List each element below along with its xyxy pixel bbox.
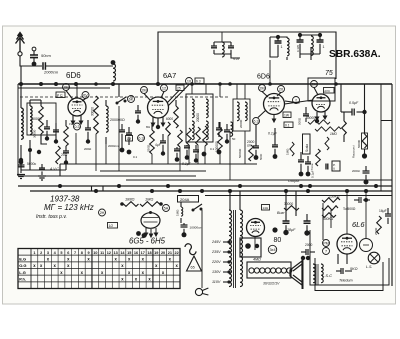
capacitor C25 8uF right [352,166,370,185]
svg-text:6000: 6000 [166,117,173,121]
wires output stage [310,191,389,291]
capacitor C13 [126,127,132,154]
label 1M vertical [176,209,180,216]
coil L1 antenna coil [21,66,23,170]
svg-text:1MΩ: 1MΩ [176,209,180,216]
wires V3 pins [258,92,281,123]
svg-text:20: 20 [279,87,283,91]
capacitor C14 4uF [155,134,166,156]
svg-text:20: 20 [161,251,165,255]
label 50000 right vertical [357,140,361,148]
capacitor C17 T1 bottom [193,145,199,163]
svg-text:15: 15 [127,251,131,255]
svg-text:50: 50 [232,137,236,141]
svg-text:100000: 100000 [215,141,219,152]
capacitor C18b IF middle [216,122,222,137]
pin circle 5Y4 [268,245,276,253]
svg-text:2000cm: 2000cm [108,144,119,148]
wire to plug [201,210,203,288]
pin circle V3 c [253,118,260,125]
svg-text:12: 12 [107,251,111,255]
box left shield [27,103,56,135]
label tube V2 6A7 [163,71,176,80]
pin box V2 d [176,85,184,91]
antenna [16,33,25,56]
wire antenna down [20,56,42,66]
coil L5 top right 3 [311,36,313,56]
speaker cone [290,257,303,289]
svg-text:3: 3 [47,251,49,255]
box label 1/2 [108,223,118,229]
resistor R23 206ohm [181,207,183,216]
svg-text:14Ω: 14Ω [263,206,269,210]
capacitor C22 tone b [305,156,311,176]
tube V5 6L6 [337,234,357,254]
magic eye pins [136,228,158,238]
wire x119 vertical [118,84,120,171]
pin box V1 [56,92,65,98]
wire bus y171 [100,170,206,172]
svg-text:20000: 20000 [196,113,200,122]
svg-text:16μF: 16μF [379,209,387,213]
svg-text:204A: 204A [180,197,190,202]
capacitor C15 cluster [174,147,180,162]
squiggle symbol [185,244,196,255]
wire verticals bottom mid [230,191,296,250]
label 2000cm [43,70,59,75]
voltage tap 245V [211,240,231,244]
svg-text:2M: 2M [63,85,68,89]
label 6L6 [352,220,365,229]
svg-text:Teledum: Teledum [339,279,353,283]
capacitor C24 0.1uF right [341,84,367,116]
svg-text:1MΩ: 1MΩ [286,148,290,155]
ground G2 [38,164,46,180]
capacitor C3 top middle [211,42,217,54]
pin circle 6L6 a [323,240,330,247]
svg-text:25: 25 [177,87,181,91]
svg-text:30000: 30000 [33,129,37,138]
capacitor C28 8uF b [272,214,310,236]
pin circle V2 b [161,85,168,92]
svg-text:75: 75 [325,70,333,77]
svg-text:30000: 30000 [284,202,293,206]
resistor R11 cluster c [196,127,201,145]
svg-text:E.G: E.G [19,257,26,262]
pin circle 6L6 b [323,248,330,255]
wire top verticals from bus [192,84,245,99]
svg-text:20000: 20000 [239,119,243,128]
svg-text:5000c: 5000c [27,162,37,166]
svg-text:8: 8 [81,251,83,255]
svg-text:To 500Ω: To 500Ω [343,207,356,211]
label 188ohm [125,197,134,202]
svg-text:6V: 6V [83,93,88,97]
wire bus y88 left [18,87,110,89]
capacitor C10 [63,146,69,165]
label MF 123 kHz [44,203,94,212]
svg-text:1MΩ: 1MΩ [145,197,153,202]
svg-text:22: 22 [174,251,178,255]
junction dots on bus [111,82,338,86]
wire bus y180 [126,179,392,181]
svg-text:10000cm: 10000cm [190,226,203,230]
resistor R6 250ohm [150,124,155,154]
pin circle V2 c [128,96,135,103]
svg-text:Tone: Tone [310,163,314,170]
svg-text:U: U [333,167,335,171]
svg-text:21: 21 [168,251,172,255]
svg-text:188Ω: 188Ω [125,197,134,202]
svg-text:6L6: 6L6 [352,220,365,229]
capacitor C5 top right 1 [275,35,283,54]
resistor R5 30000 vertical [94,96,99,134]
resistor R12 cluster d [203,126,208,146]
svg-text:250Ω: 250Ω [147,144,151,152]
label V.A [233,57,239,61]
pin circle V1 right [82,92,89,99]
svg-text:1M: 1M [127,137,132,141]
table X marks [33,257,178,282]
coil L7 scala [303,134,311,154]
capacitor C8 [44,120,50,141]
field coil box [247,262,291,278]
svg-text:Instr. tous p.v.: Instr. tous p.v. [36,214,67,220]
rectifier tube 80 [247,219,265,237]
voltage tap 110V [212,280,231,284]
pin circle V2 a [141,87,148,94]
wires V4 pins [314,88,327,124]
resistor R15 1M diag [290,142,294,156]
svg-text:500Ω: 500Ω [298,117,302,125]
resistor R9 cluster a [178,130,183,147]
box PU [332,161,340,171]
resistor R26 250K [322,195,340,203]
label 0.1uF vertical right [311,170,315,178]
svg-text:1/2: 1/2 [109,224,114,228]
pin box V3 e [284,122,293,128]
svg-text:L.G: L.G [19,270,26,275]
svg-text:6.3: 6.3 [253,119,258,123]
svg-text:Raccourci: Raccourci [352,145,356,158]
table row labels [19,257,26,282]
transformer T4 primary coil [229,210,232,287]
label 50000 [32,117,42,121]
label tube V3 6D6 [257,74,270,81]
svg-text:1: 1 [323,45,325,49]
svg-text:18: 18 [147,251,151,255]
capacitor C7 top right 3 [317,33,325,54]
pin circle 2H [99,209,106,216]
svg-text:0.5μF: 0.5μF [349,101,359,105]
label Teledum [339,279,353,283]
label 206ohm [178,196,199,203]
svg-text:2M: 2M [259,86,264,90]
wire bus y186 [18,185,392,187]
svg-text:1: 1 [281,45,283,49]
svg-text:9: 9 [88,251,90,255]
svg-text:12: 12 [162,86,166,90]
resistor R27 to500 [322,206,356,211]
label 80 [274,237,282,244]
label 6G5-6H5 [129,237,166,246]
capacitor C21 tone a [298,152,304,176]
dots bottom right lines [228,184,378,193]
svg-text:0.1μF: 0.1μF [268,132,278,136]
transformer T4 core [234,210,236,288]
resistor box right of V4 [324,88,335,94]
capacitor C12 [119,124,125,152]
ground G1 cap 5000c [17,160,25,179]
capacitor C23 PU [326,164,328,170]
svg-text:5: 5 [60,251,62,255]
label LSC [322,273,332,278]
svg-text:2000c: 2000c [352,169,361,173]
band switch table grid [18,249,180,289]
coil IF extra column [231,122,233,136]
extra dots left column [19,148,41,162]
svg-text:2000cm: 2000cm [43,70,59,75]
capacitor C20 0.1uF under V3 [268,128,278,159]
svg-text:2: 2 [40,251,42,255]
svg-text:7: 7 [74,251,76,255]
resistor R14 500K vertical [249,145,254,161]
label 500ohm vertical under f [298,117,302,125]
svg-text:30000: 30000 [91,107,95,116]
wire top bus horizontal [158,32,336,84]
switch S2 [192,204,203,212]
resistor R16 50000 horizontal [306,116,330,124]
svg-text:16: 16 [134,251,138,255]
svg-text:500KΩ: 500KΩ [238,148,242,158]
svg-text:11: 11 [100,251,104,255]
capacitor C30 5K coupling [336,268,352,274]
label 4Mohm [253,258,261,262]
IF transformer T1 box [186,94,213,142]
label 30000 vertical left [33,129,37,138]
tube V2 6A7 [148,97,169,118]
svg-text:L.S.: L.S. [366,265,372,269]
svg-text:4MΩ: 4MΩ [253,258,261,262]
anode circle 6L6 [360,239,373,252]
resistor R10 cluster b [187,128,192,145]
svg-text:5KΩ: 5KΩ [350,267,358,271]
dots right column [362,149,367,159]
svg-text:2M: 2M [141,88,146,92]
IF transformer T3 box [233,99,250,131]
label 500KOhm vertical [238,148,242,158]
label Raccourci vertical [352,145,356,158]
svg-text:65: 65 [191,266,195,270]
svg-text:L.S.C: L.S.C [322,273,332,278]
resistor R3 20ohm [56,146,68,164]
label 1937-38 [50,195,80,204]
wires top right group1 [270,37,287,84]
triangle symbol [187,256,202,271]
svg-text:PM: PM [323,241,329,245]
capacitor C18 [224,124,230,144]
label 5000c [27,162,37,166]
resistor R7 6000 [166,117,174,136]
pin circle 5A [163,205,170,212]
svg-text:2M: 2M [311,82,316,86]
svg-text:2000: 2000 [305,243,313,247]
output transformer T5 [313,264,323,285]
svg-text:6A7: 6A7 [163,71,176,80]
svg-text:245V: 245V [211,240,221,244]
svg-text:0.1: 0.1 [285,124,290,128]
wire top bus drop x336 [335,60,337,79]
resistor R29 250ohm right [377,216,382,234]
capacitor C27 8uF a [283,214,290,235]
svg-text:0.1μF: 0.1μF [311,170,315,178]
pin circle V1 low [74,123,81,130]
wire left edge vertical x18 [17,84,19,176]
label A.V.C [49,167,59,171]
pin circle V4 [311,81,318,88]
coil L3 top middle [222,42,224,57]
label Tone vertical [310,163,314,170]
svg-text:200Ω: 200Ω [84,147,92,151]
label 18uF [287,228,296,232]
label Instr tous pv [36,214,67,220]
wires V1 pins [66,85,86,124]
label LS right speaker [366,265,372,269]
coil L6 tall [106,100,108,144]
svg-text:6D6: 6D6 [257,74,270,81]
pin circle V2 e [186,78,193,85]
capacitor C11 [85,120,91,144]
svg-text:110V: 110V [212,280,221,284]
svg-text:5000: 5000 [259,153,263,160]
label 100000 vertical [215,141,219,152]
resistor R21 188ohm [120,202,138,207]
svg-text:1MΩ: 1MΩ [330,132,337,136]
svg-text:V.A: V.A [233,57,239,61]
pin circle V1 top [63,84,70,91]
wire bus y164 [60,163,257,165]
voltage tap 220V [211,260,231,264]
wire loop connectors x91 x103 [92,186,104,191]
wires top middle cluster [214,32,240,58]
pin circle 6.3 [138,135,145,142]
voltage tap 235V [211,250,231,254]
svg-text:200000Ω: 200000Ω [110,118,125,122]
dots IF bottoms [202,150,222,157]
svg-text:18μF: 18μF [287,228,296,232]
resistor R22 1Mohm [140,202,163,207]
svg-text:5A: 5A [164,206,169,210]
capacitor C9 [53,123,59,144]
svg-text:6G5 - 6H5: 6G5 - 6H5 [129,237,166,246]
label tube V4 75 [325,70,333,77]
svg-text:6K: 6K [129,97,134,101]
capacitor C13b V2 left [135,105,141,124]
box below rectifier [240,238,261,257]
svg-text:10: 10 [93,251,97,255]
capacitor C26 2000cm [181,223,203,237]
svg-text:13: 13 [114,251,118,255]
svg-text:SBR.638A.: SBR.638A. [329,49,381,60]
label Output [288,179,300,183]
resistor R24 1M vertical [180,202,182,223]
field coil bumps [249,268,292,273]
wires top right group2 [300,35,320,60]
svg-text:0.1: 0.1 [133,155,138,159]
label 1Mohm pot [145,197,153,202]
svg-text:MΓ = 123 kHz: MΓ = 123 kHz [44,203,94,212]
svg-text:4μF: 4μF [155,143,161,147]
resistor R13 100000 [218,122,223,152]
wire right verticals [381,84,392,286]
T3 coils [237,102,247,121]
wire bus y176 [18,175,196,177]
svg-text:220V: 220V [211,260,221,264]
svg-text:50000: 50000 [357,140,361,148]
svg-text:1W: 1W [69,122,74,126]
svg-text:K.C: K.C [57,94,63,98]
svg-text:0.3: 0.3 [74,125,79,129]
svg-text:AVC: AVC [324,89,330,93]
wire AVC dashed y96 [20,96,230,98]
svg-text:6D6: 6D6 [66,71,81,80]
svg-text:Scala: Scala [305,144,309,152]
capacitor C19 2000cm under V3 [247,125,259,160]
svg-text:Buzr: Buzr [277,211,285,215]
capacitor C16 cluster [184,145,190,160]
wires V2 pins [144,85,189,130]
svg-text:6: 6 [67,251,69,255]
pin circle V3 f [293,97,300,104]
capacitor C32 16uF [379,208,391,224]
speaker small right [368,252,380,264]
capacitor C2 2000cm series [43,62,113,70]
label 50cm [41,53,51,58]
wires V3 to V4 [285,100,314,104]
table column numbers [33,251,178,255]
wire output verticals [323,203,331,240]
svg-text:50cm: 50cm [41,53,51,58]
title SBR.638A. [329,49,381,60]
T1 secondary coils [206,99,208,140]
resistor R17 horizontal2 [315,127,341,136]
capacitor C1 trimmer 50cm [30,47,38,66]
wires left column [21,100,66,170]
svg-text:250Ω: 250Ω [374,227,378,235]
capacitor C31 right of 250K [354,197,370,203]
tube V1 6D6 [68,98,86,116]
resistor R25 30000 [262,202,300,210]
junction dots left bus [19,82,78,86]
coil L4 top right 1 [287,38,289,56]
svg-text:0.1: 0.1 [210,147,215,151]
box around V4 [308,78,335,101]
transformer T4 secondary coil [240,210,243,287]
svg-text:50000: 50000 [306,116,315,120]
pin circle V3 b [278,86,285,93]
label 5Kohm [350,267,358,271]
capacitor C6 top right 2 [296,33,304,54]
svg-text:6.3: 6.3 [196,80,201,84]
tube V4 75 [312,94,330,112]
svg-text:1: 1 [33,251,35,255]
resistor R19 50000 right [362,84,368,149]
svg-text:235V: 235V [211,250,221,254]
wire bus y195 right [205,195,392,197]
pin box V2 f [195,78,204,84]
svg-text:0.135: 0.135 [296,45,300,52]
plug symbol [195,288,208,296]
